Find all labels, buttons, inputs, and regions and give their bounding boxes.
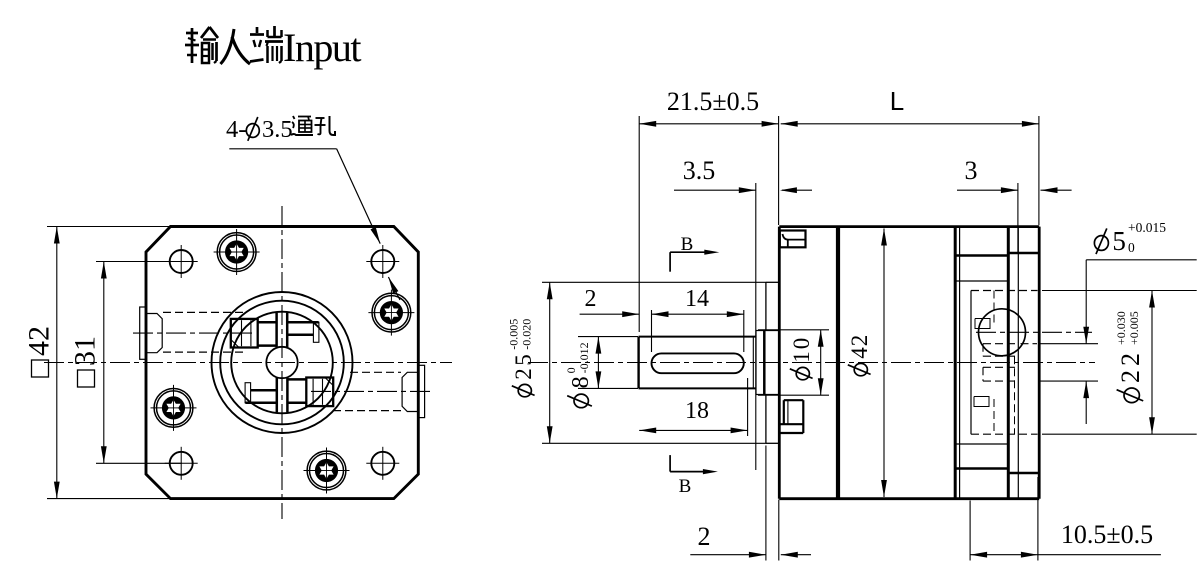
- svg-text:-0.020: -0.020: [520, 319, 534, 350]
- svg-text:B: B: [679, 476, 692, 497]
- svg-text:14: 14: [685, 286, 709, 312]
- svg-text:2: 2: [585, 286, 597, 312]
- svg-text:3.5: 3.5: [683, 156, 716, 185]
- svg-text:25: 25: [511, 352, 536, 380]
- svg-text:21.5±0.5: 21.5±0.5: [667, 87, 759, 116]
- svg-text:-0.005: -0.005: [507, 319, 521, 350]
- svg-text:10.5±0.5: 10.5±0.5: [1061, 520, 1153, 549]
- svg-text:-0.012: -0.012: [577, 342, 591, 373]
- svg-text:+0.005: +0.005: [1127, 311, 1141, 345]
- svg-text:L: L: [890, 86, 904, 116]
- svg-text:+0.030: +0.030: [1114, 311, 1128, 345]
- svg-text:42: 42: [23, 326, 56, 356]
- svg-text:5: 5: [1112, 226, 1126, 256]
- svg-text:B: B: [681, 234, 694, 255]
- svg-text:Input: Input: [283, 25, 361, 70]
- svg-text:3.5: 3.5: [262, 116, 293, 143]
- svg-text:31: 31: [69, 336, 102, 366]
- svg-text:10: 10: [789, 336, 814, 363]
- svg-text:18: 18: [685, 398, 709, 424]
- svg-text:3: 3: [965, 156, 978, 185]
- svg-text:0: 0: [564, 367, 578, 373]
- svg-text:42: 42: [847, 334, 872, 359]
- svg-text:+0.015: +0.015: [1128, 220, 1166, 235]
- svg-text:22: 22: [1116, 349, 1145, 383]
- svg-text:4-: 4-: [226, 116, 246, 143]
- svg-text:8: 8: [568, 376, 594, 388]
- svg-text:0: 0: [1128, 240, 1135, 255]
- svg-text:2: 2: [698, 522, 711, 551]
